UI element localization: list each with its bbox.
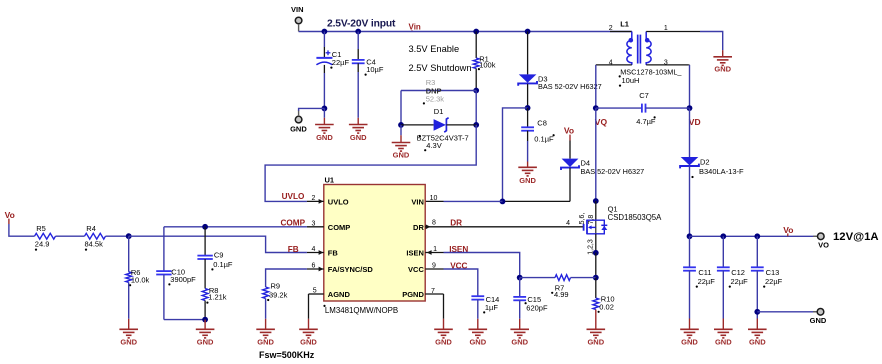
wire COMP net [164, 226, 307, 228]
svg-text:8: 8 [432, 220, 436, 227]
svg-text:52.3k: 52.3k [426, 94, 445, 103]
diode D1 BZT52C4V3T-7 zener [401, 124, 434, 126]
resistor R4 84.5k [85, 233, 106, 239]
svg-text:R9: R9 [271, 282, 281, 291]
svg-text:Vo: Vo [5, 210, 15, 220]
capacitor C15 620pF [519, 278, 521, 297]
svg-text:GND: GND [715, 338, 732, 347]
resistor R1 100k [475, 32, 477, 59]
node rail-C4 [355, 29, 361, 35]
node D1 cathode junction [473, 122, 479, 128]
capacitor C10 3900pF [163, 227, 165, 271]
wire VCC net [444, 269, 478, 296]
ground C14 [469, 329, 488, 338]
svg-text:L1: L1 [620, 19, 629, 28]
wire AGND to ground [308, 294, 310, 319]
svg-text:UVLO: UVLO [328, 198, 349, 207]
resistor R3 DNP 52.3k [401, 90, 476, 92]
svg-text:UVLO: UVLO [282, 192, 305, 201]
pin 8 stub [425, 226, 443, 228]
wire R1 junction down to D1 junction [475, 91, 477, 125]
ground C1 [315, 125, 334, 134]
node COMP-C9 junction [202, 224, 208, 230]
terminal GND left [295, 116, 302, 123]
node rail-D3 [525, 29, 531, 35]
svg-text:3900pF: 3900pF [170, 275, 196, 284]
wire C10 bottom to junction [164, 319, 205, 321]
svg-text:Fsw=500KHz: Fsw=500KHz [259, 350, 315, 360]
wire C1 lower lead [323, 65, 325, 73]
diode D4 BAS 52-02V H6327 [569, 141, 571, 159]
svg-text:10µF: 10µF [366, 65, 384, 74]
svg-text:D2: D2 [700, 158, 710, 167]
pin 2 stub [307, 200, 324, 202]
svg-text:AGND: AGND [328, 290, 351, 299]
svg-text:D4: D4 [581, 158, 591, 167]
svg-text:7,8: 7,8 [588, 215, 595, 225]
svg-text:FB: FB [288, 245, 299, 254]
svg-text:C9: C9 [214, 251, 224, 260]
ground C8 [518, 167, 537, 176]
svg-text:BZT52C4V3T-7: BZT52C4V3T-7 [417, 134, 469, 143]
svg-text:0.1µF: 0.1µF [213, 260, 233, 269]
svg-text:5,6,: 5,6, [579, 213, 586, 225]
node Q1 source [593, 250, 599, 256]
svg-text:PGND: PGND [402, 290, 424, 299]
resistor R6 10.0k [128, 236, 130, 272]
svg-text:FB: FB [328, 249, 339, 258]
pin 1 stub [425, 252, 443, 254]
wire Vo to R5 [9, 224, 35, 236]
svg-text:ISEN: ISEN [406, 249, 424, 258]
svg-text:R4: R4 [86, 224, 96, 233]
svg-text:DR: DR [450, 219, 462, 228]
svg-text:GND: GND [350, 133, 367, 142]
svg-text:GND: GND [519, 176, 536, 185]
wire VIN pin net [503, 200, 571, 202]
node D1 anode junction [398, 122, 404, 128]
ground C11 [680, 329, 699, 338]
svg-text:620pF: 620pF [526, 303, 548, 312]
ic U1 LM3481 [324, 185, 425, 302]
pin 6 stub [307, 268, 324, 270]
ground D1 [392, 143, 411, 152]
svg-text:22µF: 22µF [698, 277, 716, 286]
svg-text:CSD18503Q5A: CSD18503Q5A [608, 213, 663, 222]
svg-text:C12: C12 [731, 268, 745, 277]
phase dot L1 pin2 side [629, 38, 634, 43]
svg-text:U1: U1 [325, 175, 335, 184]
wire output rail [690, 235, 818, 237]
resistor R7 4.99 [555, 275, 571, 281]
node C1-gnd junction [322, 106, 328, 112]
svg-text:GND: GND [120, 338, 137, 347]
svg-text:COMP: COMP [281, 219, 306, 228]
diode D3 BAS 52-02V H6327 [527, 32, 529, 75]
svg-text:Vin: Vin [409, 23, 421, 32]
node D3-C8 junction [525, 105, 531, 111]
ground R10 [587, 329, 606, 338]
svg-text:R5: R5 [36, 224, 46, 233]
svg-text:GND: GND [469, 338, 486, 347]
svg-text:GND: GND [257, 338, 274, 347]
wire C1 junction to ground symbol [323, 108, 325, 117]
svg-text:0.02: 0.02 [599, 302, 614, 311]
node output rail D2 [687, 233, 693, 239]
ground R6 [119, 329, 138, 338]
pin 7 stub [425, 293, 443, 295]
svg-text:Vo: Vo [564, 125, 574, 135]
svg-text:GND: GND [714, 65, 731, 74]
node Q1 drain [593, 198, 599, 204]
node rail-C1 [322, 29, 328, 35]
svg-text:GND: GND [511, 338, 528, 347]
svg-text:VO: VO [818, 241, 829, 250]
node C13 gnd terminal junction [754, 309, 760, 315]
resistor R5 24.9 [35, 233, 56, 239]
svg-text:GND: GND [300, 338, 317, 347]
wire Q1 source [595, 234, 597, 253]
node VIN pin junction [500, 199, 506, 205]
svg-text:C11: C11 [698, 268, 711, 277]
svg-text:DR: DR [413, 223, 424, 232]
svg-text:10uH: 10uH [622, 76, 640, 85]
ground AGND [299, 329, 318, 338]
svg-text:22µF: 22µF [731, 277, 749, 286]
svg-text:GND: GND [393, 150, 410, 159]
svg-text:GND: GND [290, 124, 307, 133]
svg-text:GND: GND [435, 338, 452, 347]
svg-text:LM3481QMW/NOPB: LM3481QMW/NOPB [325, 306, 398, 315]
resistor R9 39.2k [263, 287, 269, 299]
svg-text:BAS 52-02V H6327: BAS 52-02V H6327 [581, 167, 645, 176]
wire ISEN net [444, 253, 520, 278]
ground R9 [256, 329, 275, 338]
capacitor C11 22uF [689, 236, 691, 267]
wire R7 to R10 junction [571, 277, 596, 279]
svg-text:0.1µF: 0.1µF [534, 135, 554, 144]
core L1 [638, 35, 641, 64]
wire DNP left leg down [400, 91, 402, 125]
svg-text:10: 10 [430, 195, 438, 202]
terminal VIN [295, 17, 302, 24]
svg-text:GND: GND [749, 338, 766, 347]
svg-text:VIN: VIN [291, 5, 304, 14]
pin 4 stub [307, 252, 324, 254]
svg-text:VQ: VQ [595, 117, 608, 127]
wire R4 to junction [106, 235, 129, 237]
wire UVLO net from D1 junction [265, 125, 476, 201]
ground C15 [510, 329, 529, 338]
wire FA/SYNC/SD to R9 [266, 269, 307, 287]
capacitor C14 1uF [471, 296, 484, 299]
node C10-R8 junction [202, 317, 208, 323]
wire D1 anode to ground [400, 125, 402, 135]
terminal VO [813, 235, 818, 237]
resistor R10 0.02 [595, 278, 597, 298]
wire L1 pin4 lead [596, 64, 632, 66]
capacitor C7 4.7uF [596, 107, 642, 109]
capacitor C8 0.1uF [527, 108, 529, 127]
svg-text:39.2k: 39.2k [269, 290, 288, 299]
ground C4 [349, 125, 368, 134]
wire L1 pin3 lead [646, 64, 689, 66]
svg-text:GND: GND [681, 338, 698, 347]
wire VD vertical [688, 64, 691, 66]
svg-text:C13: C13 [766, 268, 780, 277]
wire PGND to ground [443, 294, 445, 319]
transistor Q1 CSD18503Q5A [584, 220, 587, 235]
wire D3 junction to VIN pin net [503, 108, 528, 201]
node ISEN-R10 junction [593, 275, 599, 281]
capacitor C1 22uF polarized [323, 32, 325, 48]
svg-text:GND: GND [316, 133, 333, 142]
svg-text:12V@1A: 12V@1A [833, 231, 879, 243]
pin 5 stub [309, 293, 324, 295]
node rail C13 [754, 233, 760, 239]
node rail C12 [720, 233, 726, 239]
svg-text:FA/SYNC/SD: FA/SYNC/SD [328, 265, 374, 274]
ground COMP network [196, 329, 215, 338]
svg-text:B340LA-13-F: B340LA-13-F [699, 167, 744, 176]
svg-text:84.5k: 84.5k [85, 239, 104, 248]
wire ISEN junction to R7 [520, 277, 555, 279]
svg-text:4.99: 4.99 [554, 290, 569, 299]
capacitor C9 0.1uF [204, 227, 206, 256]
svg-text:BAS 52-02V H6327: BAS 52-02V H6327 [538, 82, 602, 91]
ground C12 [714, 329, 733, 338]
node VQ [593, 105, 599, 111]
svg-text:24.9: 24.9 [35, 239, 50, 248]
wire DR gate drive [444, 226, 584, 228]
terminal GND right [813, 311, 817, 313]
svg-text:GND: GND [810, 316, 827, 325]
svg-text:22µF: 22µF [765, 277, 783, 286]
svg-text:VIN: VIN [411, 198, 424, 207]
node rail-R1 [473, 29, 479, 35]
resistor R8 1.21k [202, 289, 208, 301]
node VD [687, 105, 693, 111]
svg-text:VD: VD [689, 117, 701, 127]
wire L1 pin1 to ground [646, 31, 700, 33]
svg-text:22µF: 22µF [332, 58, 350, 67]
capacitor C4 10uF [357, 32, 359, 50]
wire to GND terminal [757, 311, 817, 313]
pin 3 stub [307, 226, 324, 228]
wire GND terminal to C1 junction [298, 110, 300, 116]
svg-text:2.5V Shutdown: 2.5V Shutdown [409, 63, 472, 73]
svg-text:C8: C8 [537, 119, 547, 128]
wire VQ vertical [595, 65, 597, 108]
ground PGND [434, 329, 453, 338]
ground C13 [748, 329, 767, 338]
pin 9 stub [425, 268, 443, 270]
svg-text:D1: D1 [434, 107, 444, 116]
svg-text:COMP: COMP [328, 223, 351, 232]
svg-text:C7: C7 [639, 91, 649, 100]
svg-text:1.21k: 1.21k [208, 292, 227, 301]
diode D2 B340LA-13-F [689, 108, 691, 157]
svg-text:2.5V-20V input: 2.5V-20V input [327, 18, 396, 29]
svg-text:4: 4 [566, 220, 570, 227]
svg-text:4.3V: 4.3V [426, 141, 441, 150]
svg-text:GND: GND [197, 338, 214, 347]
svg-text:100k: 100k [479, 60, 496, 69]
svg-text:4.7µF: 4.7µF [636, 117, 656, 126]
svg-text:GND: GND [587, 338, 604, 347]
wire FB route [129, 236, 307, 252]
wire VIN terminal to input rail [298, 24, 300, 32]
wire R5 to R4 [56, 235, 85, 237]
capacitor C13 22uF [756, 236, 758, 267]
svg-text:10.0k: 10.0k [131, 276, 150, 285]
capacitor C12 22uF [722, 236, 724, 267]
svg-text:3.5V Enable: 3.5V Enable [409, 44, 460, 54]
phase dot L1 pin1 side [645, 38, 650, 43]
node R1-DNP junction [473, 88, 479, 94]
wire Vin input rail [324, 31, 631, 33]
node ISEN-C15 junction [517, 275, 523, 281]
svg-text:1µF: 1µF [485, 303, 498, 312]
svg-text:VCC: VCC [408, 265, 424, 274]
wire VQ to Q1 drain [595, 108, 597, 201]
ground L1 secondary [713, 57, 732, 66]
node FB divider [126, 233, 132, 239]
